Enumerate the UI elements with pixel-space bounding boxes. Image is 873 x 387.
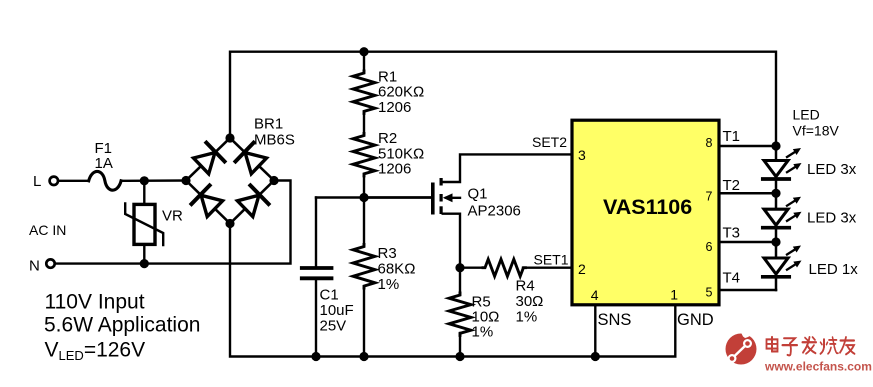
- svg-text:MB6S: MB6S: [254, 132, 295, 149]
- svg-text:68KΩ: 68KΩ: [378, 261, 416, 278]
- svg-text:T2: T2: [723, 177, 741, 194]
- svg-text:10uF: 10uF: [320, 302, 354, 319]
- svg-text:SET2: SET2: [532, 134, 567, 150]
- watermark text elecfans (CJK drawn as vector strokes): [767, 337, 855, 355]
- svg-text:SNS: SNS: [598, 311, 632, 329]
- svg-text:8: 8: [706, 136, 713, 150]
- svg-text:4: 4: [591, 287, 599, 303]
- wire R4 to SET1 pin2: [523, 267, 572, 269]
- varistor VR: [134, 204, 155, 244]
- transistor Q1: [431, 178, 460, 215]
- svg-text:www.elecfans.com: www.elecfans.com: [764, 360, 872, 374]
- wire N line to bridge E node: [56, 181, 291, 264]
- char you: [841, 340, 855, 342]
- junction LED chain T2: [771, 189, 780, 198]
- svg-text:LED 3x: LED 3x: [807, 210, 857, 227]
- svg-text:1%: 1%: [378, 276, 400, 293]
- svg-text:6: 6: [706, 240, 713, 254]
- bridge rectifier BR1 diode D2 (E to N): [230, 138, 274, 181]
- svg-text:BR1: BR1: [254, 116, 283, 133]
- svg-text:R3: R3: [378, 245, 397, 262]
- svg-text:1206: 1206: [378, 161, 411, 178]
- wire R1 top lead: [363, 52, 365, 71]
- wire C1 bottom lead: [315, 280, 317, 356]
- svg-text:GND: GND: [677, 311, 714, 329]
- svg-text:R4: R4: [516, 278, 535, 295]
- svg-text:5: 5: [706, 286, 713, 300]
- transistor Q1 gate lead: [364, 196, 431, 198]
- junction top bus / R1: [359, 47, 368, 56]
- svg-text:1A: 1A: [95, 155, 113, 172]
- resistor R2: [353, 134, 375, 176]
- resistor R3: [353, 245, 375, 289]
- wire Q1 source down: [443, 214, 460, 268]
- svg-text:N: N: [29, 258, 40, 275]
- LED D5 (top, 3x): [763, 146, 802, 193]
- resistor R1: [353, 71, 375, 113]
- wire L terminal to fuse: [58, 180, 88, 182]
- svg-text:AP2306: AP2306: [468, 203, 521, 220]
- wire top bus: bridge N up and across to LED chain: [230, 52, 776, 146]
- wire T3 stub pin6: [719, 241, 776, 244]
- svg-text:SET1: SET1: [533, 252, 568, 268]
- wire Q1 drain to SET2 to pin3: [443, 154, 572, 182]
- svg-text:1%: 1%: [516, 309, 538, 326]
- wire C1 top lead: [315, 198, 317, 267]
- svg-text:25V: 25V: [320, 318, 347, 335]
- svg-text:2: 2: [578, 261, 586, 277]
- svg-text:1206: 1206: [378, 99, 411, 116]
- svg-text:3: 3: [578, 147, 586, 163]
- char dian: [767, 339, 778, 348]
- junction LED chain T1: [771, 141, 780, 150]
- svg-text:VAS1106: VAS1106: [603, 195, 692, 219]
- svg-text:Vf=18V: Vf=18V: [793, 123, 840, 139]
- junction LED chain T3: [771, 237, 780, 246]
- svg-text:L: L: [33, 173, 41, 190]
- wire R1-R2: [363, 114, 365, 134]
- svg-text:C1: C1: [320, 287, 339, 304]
- wire R3 top lead: [363, 198, 365, 245]
- capacitor C1: [302, 266, 332, 270]
- char zi: [784, 338, 795, 343]
- wire SNS stub pin4: [594, 305, 596, 357]
- junction mid rail: [359, 193, 368, 202]
- wire T1 stub pin8: [719, 145, 776, 148]
- bridge rectifier BR1 diode D4 (S to E): [230, 181, 274, 224]
- svg-text:1: 1: [670, 287, 678, 303]
- node N terminal: [46, 259, 54, 267]
- bridge rectifier BR1 diode D1 (W to N): [186, 138, 230, 181]
- node bridge W: [181, 176, 190, 185]
- LED D6 (middle, 3x): [763, 193, 802, 242]
- svg-text:LED 3x: LED 3x: [807, 161, 857, 178]
- junction Q1 source / R4 / R5: [455, 263, 464, 272]
- svg-text:T4: T4: [723, 270, 741, 287]
- svg-text:5.6W Application: 5.6W Application: [44, 314, 200, 337]
- junction SNS bottom: [591, 352, 600, 361]
- node bridge E: [269, 176, 278, 185]
- resistor R5: [459, 268, 461, 293]
- svg-text:620KΩ: 620KΩ: [378, 84, 424, 101]
- fuse F1: [89, 171, 121, 190]
- wire bottom bus: [230, 224, 675, 357]
- wire T4 stub pin5: [719, 289, 776, 292]
- op-amp U1 VAS1106 IC body: [572, 120, 719, 305]
- char shao: [823, 339, 825, 346]
- wire R2 bottom to mid junction: [363, 177, 365, 198]
- LED D7 (bottom, 1x): [763, 242, 802, 290]
- svg-text:1%: 1%: [472, 324, 494, 341]
- node L terminal: [50, 177, 58, 185]
- svg-text:LED: LED: [793, 107, 820, 123]
- char fa: [803, 341, 817, 343]
- svg-text:110V Input: 110V Input: [45, 291, 145, 314]
- wire VR top lead: [143, 181, 145, 205]
- watermark logo elecfans: [726, 328, 757, 364]
- wire fuse to bridge W node: [121, 179, 186, 182]
- svg-text:VR: VR: [162, 208, 183, 225]
- svg-text:30Ω: 30Ω: [516, 293, 544, 310]
- svg-text:LED 1x: LED 1x: [809, 261, 859, 278]
- resistor R4: [460, 267, 483, 269]
- node bridge N: [225, 133, 234, 142]
- junction VR top on L line: [140, 176, 149, 185]
- svg-text:T1: T1: [723, 128, 741, 145]
- wire R3 bottom lead: [363, 288, 365, 357]
- wire VR bottom lead: [143, 244, 145, 263]
- junction VR bottom on N line: [140, 259, 149, 268]
- junction C1 bottom: [311, 352, 320, 361]
- svg-text:Q1: Q1: [468, 186, 488, 203]
- node bridge S: [225, 219, 234, 228]
- svg-text:R2: R2: [378, 130, 397, 147]
- wire mid rail C1 top to Q1 gate: [316, 196, 431, 198]
- svg-text:AC IN: AC IN: [29, 222, 66, 238]
- wire T2 stub pin7: [719, 192, 776, 195]
- bridge rectifier BR1 diode D3 (S to W): [186, 181, 230, 224]
- junction R3 bottom: [359, 352, 368, 361]
- svg-text:7: 7: [706, 189, 713, 203]
- junction R5 bottom: [455, 352, 464, 361]
- svg-text:T3: T3: [723, 225, 741, 242]
